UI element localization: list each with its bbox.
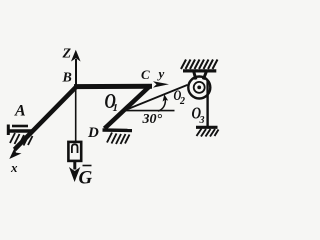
- svg-text:y: y: [157, 66, 165, 81]
- axis Z: [71, 50, 81, 86]
- support D line: [103, 128, 133, 132]
- pulley O2 axle: [197, 86, 201, 90]
- svg-text:D: D: [87, 125, 99, 141]
- rope O1 to pulley: [124, 85, 188, 111]
- bar B-C: [74, 84, 152, 89]
- svg-text:A: A: [14, 103, 26, 120]
- svg-text:G: G: [79, 168, 93, 189]
- support D hatching: [107, 133, 130, 145]
- anchor support hatching: [197, 129, 219, 137]
- pulley O2 inner hub: [194, 82, 205, 93]
- angle arc arrowhead: [163, 94, 169, 101]
- svg-text:C: C: [141, 67, 150, 82]
- support A hatching: [10, 133, 33, 146]
- svg-text:B: B: [62, 71, 72, 86]
- pulley O2 outer wheel: [188, 77, 210, 99]
- reference line at O1 vertex: [124, 110, 175, 112]
- rod C-D: [105, 86, 151, 129]
- weight hook slot: [72, 144, 78, 153]
- axis y arrowhead: [153, 81, 169, 87]
- svg-text:1: 1: [113, 102, 119, 114]
- svg-text:x: x: [10, 160, 18, 175]
- pulley bracket: [194, 71, 207, 80]
- anchor support line: [196, 126, 218, 129]
- svg-text:3: 3: [199, 115, 205, 126]
- angle arc 30: [158, 98, 165, 112]
- weight block: [68, 142, 81, 161]
- label G with overbar: [83, 165, 92, 167]
- rope pulley to anchor O3: [206, 80, 208, 126]
- support A bearing: [7, 125, 33, 136]
- rod A-B: [15, 86, 78, 150]
- ceiling hatching: [181, 60, 218, 70]
- svg-text:Z: Z: [62, 47, 72, 62]
- svg-text:2: 2: [179, 96, 185, 107]
- axis x arrowhead: [9, 147, 21, 159]
- svg-text:30°: 30°: [142, 112, 163, 127]
- ceiling line: [183, 69, 216, 72]
- force G arrow: [69, 162, 80, 183]
- rope B to weight: [75, 88, 77, 141]
